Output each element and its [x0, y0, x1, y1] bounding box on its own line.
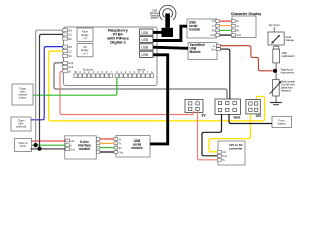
Outputs header and pin row — [74, 67, 113, 77]
USB serial module (top) — [187, 19, 220, 38]
wire green K-line module to USB serial (bottom) — [100, 147, 114, 149]
wire black YachtWell Gnd to Gnd terminal — [220, 49, 230, 99]
From battery box — [272, 116, 292, 127]
svg-text:Gnd: Gnd — [236, 34, 241, 37]
USB cable port4 to USB serial module (bottom) — [150, 55, 168, 144]
svg-text:(calibrated): (calibrated) — [282, 54, 295, 58]
relay Kline Relay (J) — [77, 28, 93, 42]
USB cable port2 to USB serial module (top) — [153, 26, 187, 40]
svg-text:instruments: instruments — [281, 71, 295, 75]
svg-text:NC: NC — [68, 54, 72, 58]
wire green (manual button to input 0) — [33, 78, 117, 96]
svg-text:module: module — [131, 146, 143, 150]
wire Gnd bus (Pi Gnd pin to Gnd terminal block) — [54, 63, 227, 100]
relay contact pins NO/C/NC (Oil relay) — [63, 45, 73, 58]
svg-text:Haynes): Haynes) — [281, 89, 291, 93]
terminal block Gnd — [215, 99, 241, 119]
USB serial module (bottom) — [114, 136, 150, 158]
svg-text:12V: 12V — [255, 114, 262, 118]
power pins Gnd/Gnd/5v — [63, 61, 74, 74]
svg-text:Gnd: Gnd — [68, 65, 73, 69]
tank sender variable resistor — [270, 80, 295, 97]
wire dark red YachtWell V+ to instruments tap — [220, 46, 272, 71]
wire green serial to display Rx — [220, 29, 232, 31]
svg-text:solenoid: solenoid — [16, 124, 27, 128]
wire red (Kline to ECU to K-line module 12v) — [32, 140, 66, 142]
YachtWell USB module — [188, 43, 220, 60]
junction ECU green/relay — [34, 143, 38, 147]
svg-text:module: module — [189, 28, 201, 32]
svg-text:(J): (J) — [83, 36, 86, 40]
wire red 5v rail (Pi 5v pin to 5V terminal) — [60, 71, 194, 114]
terminal block 12V — [246, 100, 262, 119]
svg-text:USB: USB — [141, 38, 149, 42]
wifi dongle (black) with signal arcs — [159, 5, 176, 37]
svg-text:12v (nom): 12v (nom) — [268, 24, 279, 27]
svg-text:USB: USB — [141, 31, 149, 35]
wire black From battery to Gnd terminal — [229, 114, 272, 124]
USB port 4 — [140, 51, 153, 57]
wire orange serial to display Tx — [220, 25, 232, 27]
wire red serial to display 5v — [220, 20, 232, 22]
USB cable port3 to YachtWell module — [153, 47, 188, 48]
wire green K line (ECU to K-line module K) — [32, 144, 66, 146]
svg-text:C0: C0 — [68, 49, 72, 53]
Fuel Gauge label — [286, 35, 295, 42]
svg-text:converter: converter — [229, 146, 244, 150]
svg-text:5V: 5V — [202, 113, 207, 117]
svg-text:NC: NC — [68, 37, 72, 41]
wire black Gnd terminal to converter Gnd — [202, 114, 222, 156]
wire red K-line module to USB serial (bottom) — [100, 138, 114, 140]
svg-text:battery: battery — [278, 122, 287, 126]
svg-text:adapter: adapter — [150, 17, 158, 20]
USB port 2 — [140, 36, 153, 42]
svg-text:Gauge: Gauge — [286, 38, 295, 42]
fuel gauge U-meter — [268, 32, 284, 45]
USB port 1 — [140, 29, 153, 35]
Kline to ECU box — [15, 139, 32, 152]
svg-text:NO: NO — [68, 28, 72, 32]
Raspberry Pi B+ with PiFace Digital 2 block — [64, 27, 158, 86]
wire black serial to display Gnd — [220, 34, 232, 36]
svg-text:Gnd: Gnd — [211, 48, 216, 51]
wire orange K-line module to USB serial (bottom) — [100, 142, 114, 144]
Chain oiler solenoid box — [11, 117, 31, 131]
svg-text:module: module — [79, 147, 91, 151]
svg-text:ECU: ECU — [20, 144, 26, 148]
node tap junction dot — [273, 69, 277, 73]
wire pink 5V feed to converter — [198, 111, 218, 160]
wire grey Gnd (ECU to K-line module Gnd) — [31, 148, 66, 150]
ground symbol — [270, 103, 282, 105]
wire resistor to tank sender with node — [275, 63, 277, 80]
svg-text:Gnd: Gnd — [119, 151, 124, 154]
svg-text:USB: USB — [141, 53, 149, 57]
terminal block 5V — [185, 100, 206, 118]
relay contact pins NO/C/NC (Kline relay) — [63, 28, 73, 40]
USB cable port1 to wifi dongle — [153, 31, 162, 34]
svg-text:NO: NO — [68, 45, 72, 49]
Inputs header and pin row — [115, 67, 154, 77]
wire blue (solenoid to Oil relay NO) — [31, 47, 63, 120]
wire yellow 12V feed to converter — [209, 114, 250, 152]
svg-text:Gnd: Gnd — [70, 149, 75, 152]
wire Kline relay NO (light grey) — [36, 30, 63, 145]
svg-text:( K ): ( K ) — [82, 51, 87, 55]
svg-text:Gnd: Gnd — [222, 155, 227, 158]
wire yellow 12V rail (Oil relay C to 12V terminal) — [49, 51, 265, 121]
svg-text:C0: C0 — [68, 33, 72, 37]
wire black K-line module to USB serial (bottom) — [100, 151, 114, 153]
svg-text:USB: USB — [141, 46, 149, 50]
wire 12v label to fuel gauge — [273, 27, 275, 32]
svg-text:Gnd: Gnd — [68, 61, 73, 65]
svg-text:Digital 2: Digital 2 — [110, 40, 126, 45]
Tapping on instruments label — [281, 68, 295, 75]
K-line interface module — [65, 136, 100, 159]
12V to 5V converter — [218, 141, 246, 165]
svg-text:Gnd: Gnd — [234, 115, 241, 119]
svg-text:button: button — [19, 95, 27, 99]
relay Oil Relay (K) — [77, 43, 93, 56]
USB port 3 — [140, 44, 153, 50]
svg-text:Module: Module — [190, 50, 201, 54]
USB wireless network adapter label — [150, 10, 160, 20]
Character Display — [231, 12, 262, 37]
Chain oiler manual button box — [12, 84, 33, 105]
junction ECU gnd/relay — [37, 147, 41, 151]
resistor 10W (calibrated) — [273, 46, 295, 63]
svg-text:Gnd: Gnd — [210, 34, 215, 37]
wire tank sender to ground — [275, 96, 277, 102]
wire Kline relay C (dark grey) — [40, 34, 63, 148]
wire gauge to resistor — [275, 45, 277, 48]
